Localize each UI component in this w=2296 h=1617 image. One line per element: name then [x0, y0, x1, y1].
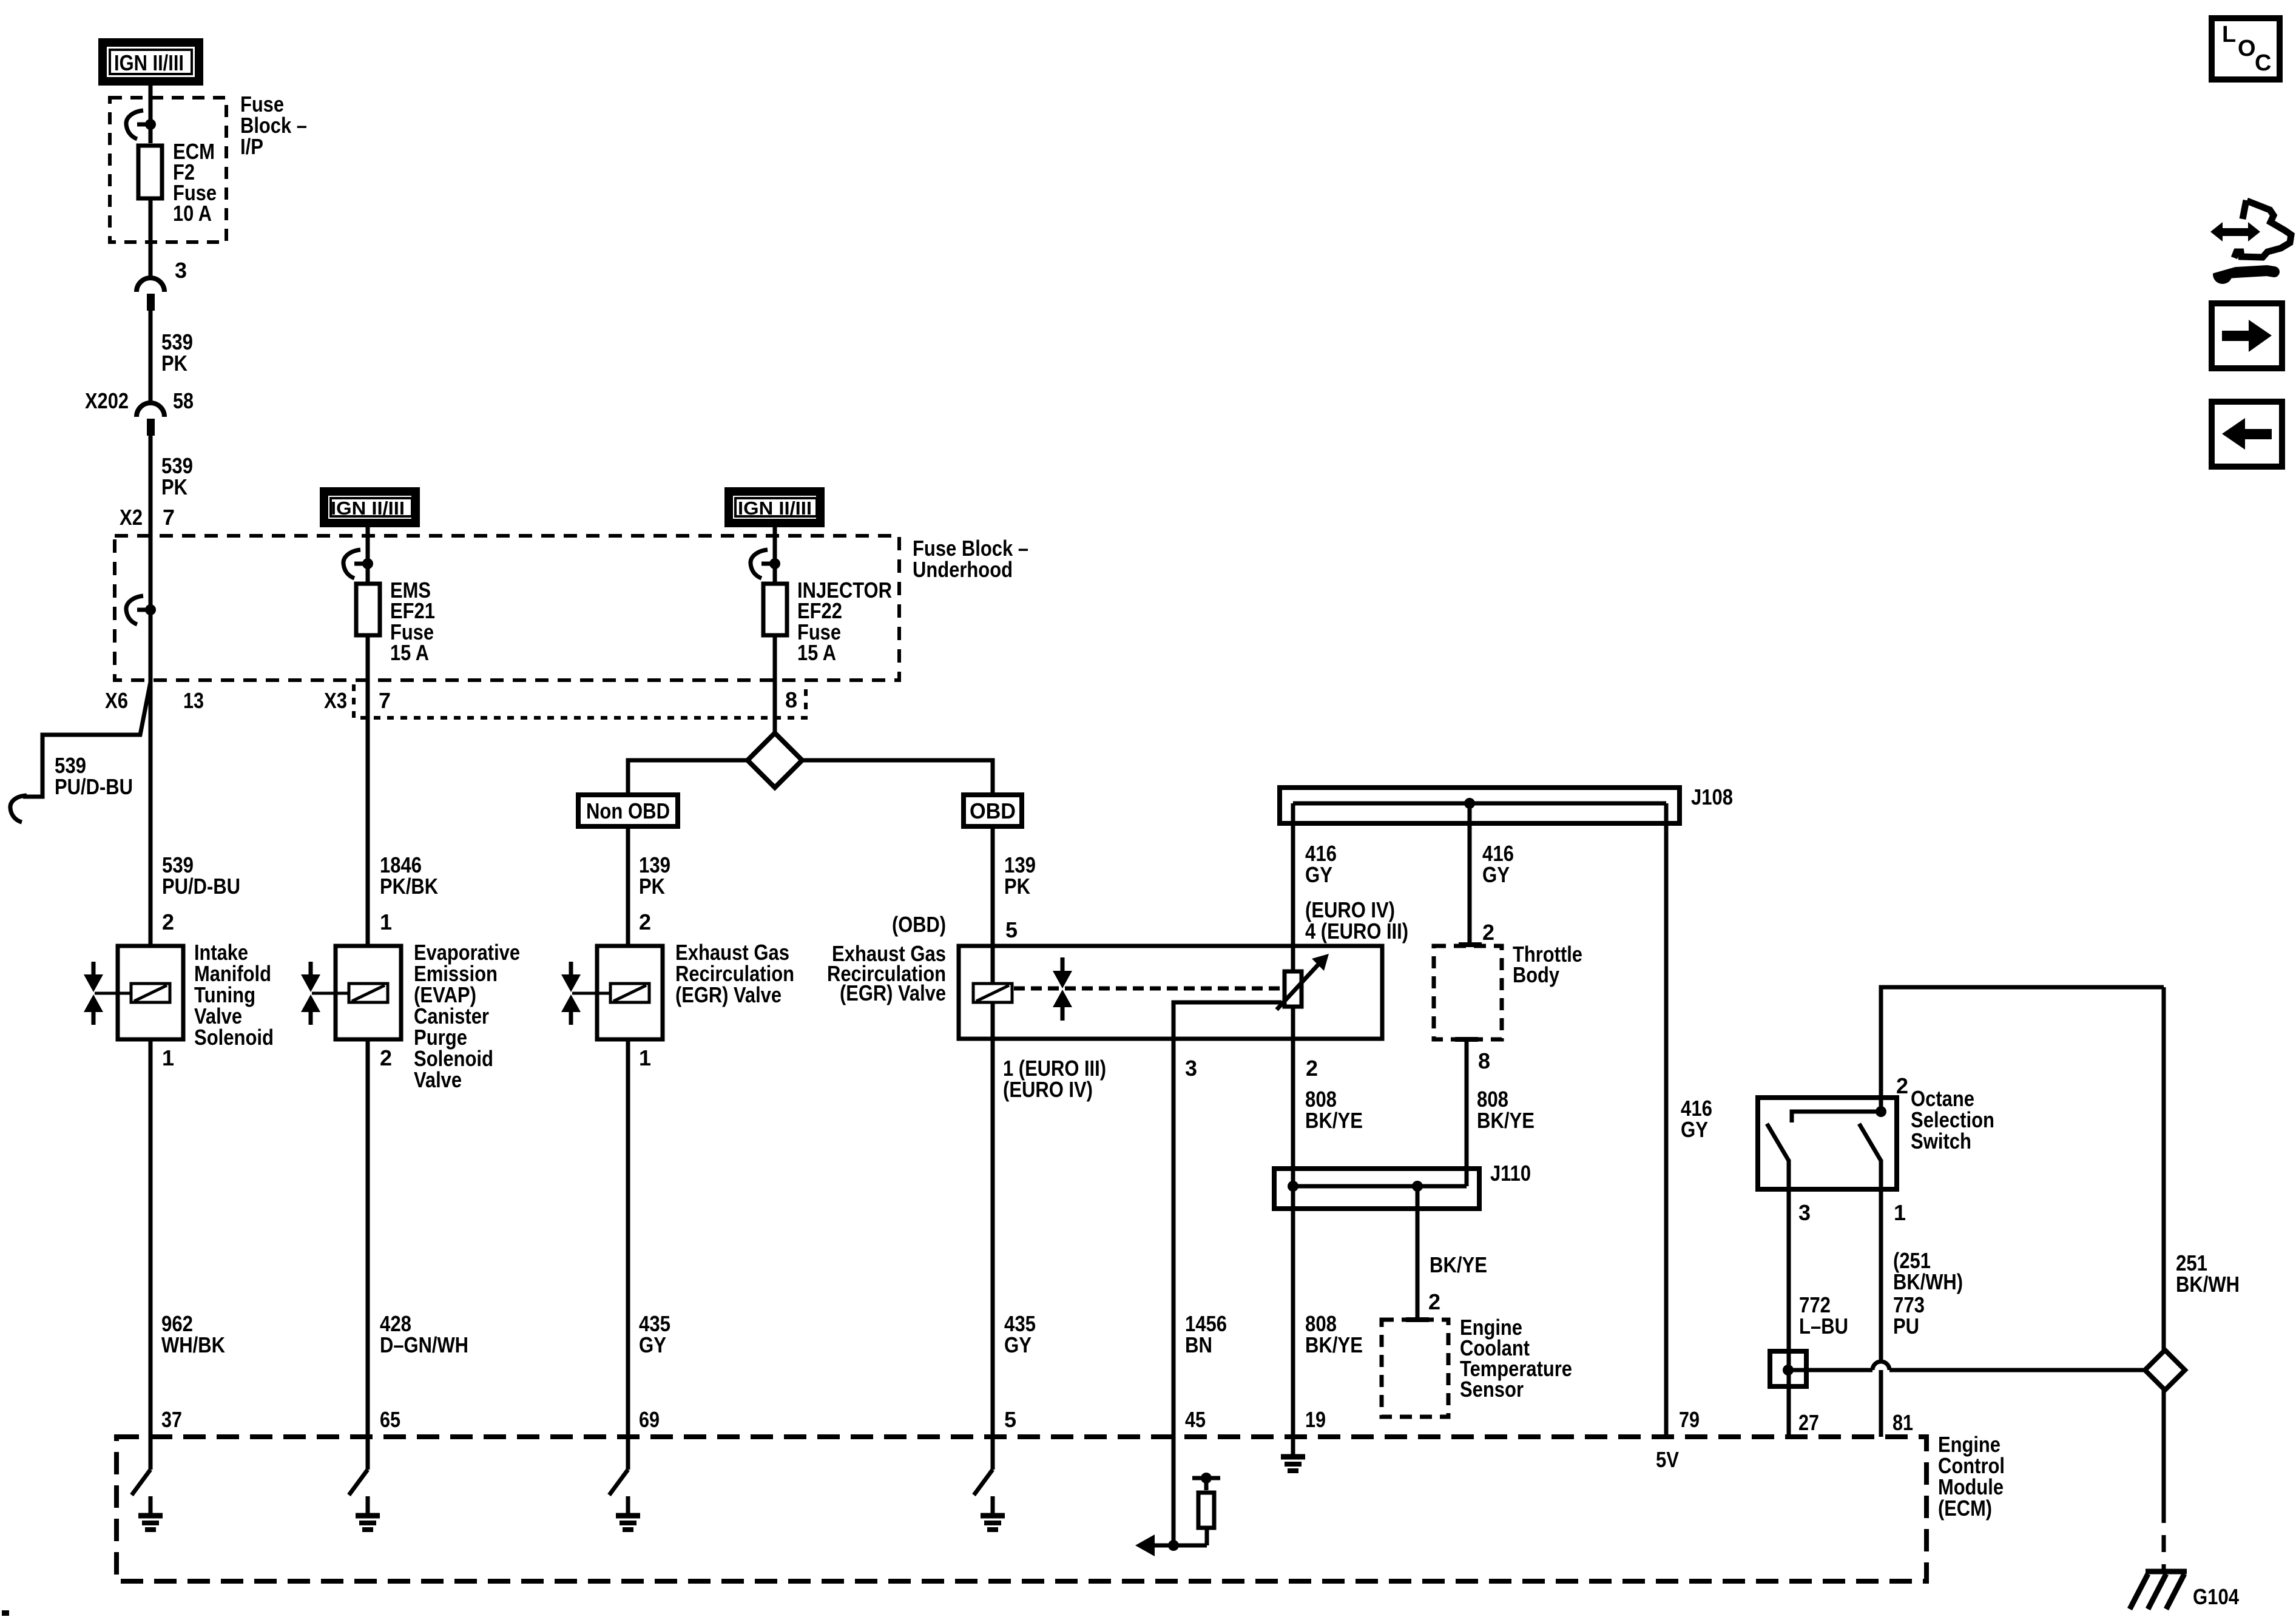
in-line connector X202 pin 3 (arc): [137, 278, 164, 292]
svg-text:81: 81: [1893, 1410, 1913, 1435]
back arrow icon: [2212, 402, 2282, 467]
wire EMS fuse down to X3 pin 7: [366, 635, 370, 720]
wire fuse F2 to connector pin 3: [149, 198, 153, 279]
svg-text:L–BU: L–BU: [1799, 1314, 1848, 1338]
svg-text:7: 7: [163, 505, 175, 530]
svg-text:BK/WH: BK/WH: [2176, 1272, 2240, 1297]
svg-text:(ECM): (ECM): [1938, 1496, 1992, 1521]
svg-text:1: 1: [162, 1045, 174, 1070]
wire 251 from octane switch pin 2: [1881, 987, 2164, 1112]
svg-text:BK/YE: BK/YE: [1305, 1108, 1363, 1133]
svg-text:1: 1: [1894, 1200, 1906, 1225]
svg-text:Sensor: Sensor: [1460, 1377, 1524, 1402]
svg-text:2: 2: [1428, 1289, 1440, 1314]
power label IGN II/III (INJECTOR fuse): [729, 491, 820, 523]
svg-text:X3: X3: [324, 688, 347, 713]
splice pack J110: [1274, 1169, 1479, 1209]
engine coolant temperature sensor dashed outline: [1382, 1320, 1448, 1417]
svg-text:1: 1: [380, 910, 392, 934]
wire 435 GY (OBD) to ECM pin 5: [991, 1039, 995, 1437]
svg-text:PK/BK: PK/BK: [380, 874, 438, 899]
svg-text:O: O: [2238, 36, 2256, 61]
svg-text:Underhood: Underhood: [913, 557, 1013, 582]
svg-text:5: 5: [1005, 917, 1018, 942]
svg-text:OBD: OBD: [970, 798, 1016, 823]
svg-text:PK: PK: [639, 874, 665, 899]
resistor inside ECM: [1192, 1473, 1220, 1528]
wire 539 PU/D-BU to IMT valve: [149, 682, 153, 946]
svg-text:2: 2: [1306, 1056, 1318, 1081]
svg-text:J110: J110: [1490, 1161, 1531, 1186]
fuse EMS EF21 15A: [356, 584, 380, 635]
svg-text:79: 79: [1679, 1407, 1700, 1432]
svg-text:58: 58: [173, 388, 194, 413]
wire 539 PK segment 2: [149, 433, 153, 535]
solenoid: EGR Valve (non OBD): [561, 946, 663, 1039]
wire 1 through fuse block underhood: [149, 535, 153, 682]
svg-text:PK: PK: [161, 474, 187, 499]
svg-text:D–GN/WH: D–GN/WH: [380, 1332, 468, 1357]
svg-text:IGN II/III: IGN II/III: [114, 50, 184, 75]
wire branch 539 PU/D-BU to left edge: [23, 682, 150, 797]
service tool icon (arrow and wrench): [2210, 200, 2291, 284]
wire junction to diamond splice: [1783, 1362, 2145, 1376]
wire 416 GY J108 to EGR pin 4: [1291, 803, 1295, 971]
ground pin 5: [974, 1437, 1005, 1530]
svg-text:8: 8: [785, 687, 797, 712]
EGR valve (OBD) outline: [959, 946, 1382, 1039]
fuse clip hook EMS: [343, 550, 373, 578]
wire IGN to INJECTOR fuse: [773, 527, 777, 582]
svg-text:GY: GY: [639, 1332, 666, 1357]
svg-text:(EGR) Valve: (EGR) Valve: [840, 981, 946, 1005]
forward arrow icon: [2212, 303, 2282, 368]
svg-text:BK/YE: BK/YE: [1430, 1252, 1487, 1277]
svg-text:PU: PU: [1893, 1314, 1919, 1338]
svg-text:(EGR) Valve: (EGR) Valve: [675, 982, 782, 1007]
ground pin 19: [1281, 1437, 1305, 1471]
octane switch contacts: [1767, 1106, 1886, 1192]
EGR OBD valve bowtie: [1053, 957, 1072, 1021]
svg-text:GY: GY: [1004, 1332, 1032, 1357]
svg-text:27: 27: [1798, 1410, 1819, 1435]
svg-text:X202: X202: [85, 388, 129, 413]
splice diamond: [748, 733, 802, 788]
power label IGN II/III (fuse block I/P): [103, 42, 199, 81]
svg-text:1: 1: [639, 1045, 651, 1070]
svg-text:IGN II/III: IGN II/III: [738, 498, 812, 519]
svg-text:PU/D-BU: PU/D-BU: [162, 874, 240, 899]
svg-text:8: 8: [1478, 1048, 1490, 1073]
svg-text:J108: J108: [1691, 785, 1733, 809]
svg-text:Valve: Valve: [414, 1067, 462, 1092]
svg-text:2: 2: [380, 1045, 392, 1070]
wire 416 GY J108 right to ECM pin 79: [1664, 803, 1669, 1437]
svg-text:Switch: Switch: [1911, 1129, 1971, 1153]
wire diamond to G104: [2162, 1390, 2166, 1506]
EGR OBD internal dashed link: [1014, 987, 1281, 991]
svg-text:I/P: I/P: [240, 134, 263, 159]
svg-text:3: 3: [175, 258, 187, 283]
svg-text:GY: GY: [1305, 862, 1332, 887]
svg-text:L: L: [2222, 22, 2236, 47]
wire OBD down to EGR valve (OBD): [991, 829, 995, 947]
svg-text:5: 5: [1004, 1407, 1016, 1432]
svg-text:15 A: 15 A: [797, 640, 836, 665]
svg-text:19: 19: [1305, 1407, 1326, 1432]
wire IGN to EMS fuse: [366, 527, 370, 582]
ground pin 37: [132, 1437, 163, 1530]
fuse INJECTOR EF22 15A: [763, 584, 787, 635]
svg-text:X6: X6: [105, 688, 128, 713]
power label IGN II/III (EMS fuse): [324, 491, 416, 523]
svg-text:PK: PK: [1004, 874, 1030, 899]
off-page hook: [10, 795, 27, 822]
fuse block underhood dashed outline: [115, 536, 899, 680]
svg-text:4 (EURO III): 4 (EURO III): [1305, 919, 1408, 944]
wire 808 BK/YE J110 to ECM pin 19: [1291, 1211, 1295, 1437]
svg-text:37: 37: [161, 1407, 182, 1432]
svg-text:45: 45: [1185, 1407, 1206, 1432]
engine control module dashed outline: [116, 1437, 1926, 1581]
Non OBD tag box: [578, 795, 678, 826]
wire 962 WH/BK to ECM pin 37: [149, 1039, 153, 1437]
svg-text:PU/D-BU: PU/D-BU: [55, 774, 133, 799]
splice pack J108: [1280, 788, 1680, 823]
svg-text:3: 3: [1798, 1200, 1811, 1225]
wire Non OBD down to EGR valve: [626, 829, 630, 946]
fuse block I/P dashed outline: [110, 98, 226, 242]
svg-text:15 A: 15 A: [390, 640, 429, 665]
svg-text:2: 2: [162, 910, 174, 934]
svg-text:Non OBD: Non OBD: [586, 798, 670, 823]
solenoid: Intake Manifold Tuning Valve Solenoid: [84, 946, 183, 1039]
svg-text:2: 2: [1482, 920, 1494, 945]
svg-text:BK/YE: BK/YE: [1305, 1332, 1363, 1357]
page artifact dot: [2, 1610, 9, 1616]
svg-text:GY: GY: [1482, 862, 1510, 887]
OBD tag box: [964, 795, 1022, 826]
octane selection switch box: [1758, 1098, 1897, 1189]
svg-text:PK: PK: [161, 351, 187, 376]
wire pin5 through coil: [991, 947, 995, 984]
wire 416 GY J108 to throttle body pin 2: [1468, 803, 1472, 945]
svg-text:X2: X2: [120, 505, 143, 530]
svg-text:WH/BK: WH/BK: [161, 1332, 225, 1357]
ground pin 65: [349, 1437, 380, 1530]
svg-text:3: 3: [1185, 1056, 1197, 1081]
svg-text:2: 2: [639, 910, 651, 934]
svg-text:(EURO IV): (EURO IV): [1003, 1077, 1093, 1102]
EGR OBD coil: [973, 984, 1012, 1002]
svg-text:13: 13: [183, 688, 204, 713]
svg-text:69: 69: [639, 1407, 660, 1432]
fuse clip hook at fuse block I/P: [126, 110, 156, 139]
wire 1846 PK/BK to EVAP valve: [366, 720, 370, 946]
wire diamond to Non OBD: [628, 760, 748, 794]
svg-text:C: C: [2255, 50, 2271, 76]
EGR pintle position sensor (potentiometer): [1173, 954, 1329, 1039]
svg-text:7: 7: [379, 688, 391, 713]
connector X3 dotted outline: [354, 684, 806, 718]
solenoid: EVAP Canister Purge Solenoid Valve: [301, 946, 401, 1039]
splice diamond 2: [2145, 1350, 2185, 1390]
wire 539 PK segment: [149, 308, 153, 403]
ground pin 69: [609, 1437, 640, 1530]
svg-text:BK/WH): BK/WH): [1893, 1269, 1963, 1294]
wire 808 BK/YE throttle body to J110: [1465, 1039, 1469, 1186]
junction box on wire 772: [1770, 1351, 1806, 1386]
svg-text:65: 65: [380, 1407, 400, 1432]
svg-text:BN: BN: [1185, 1332, 1212, 1357]
throttle body pin ticks: [1459, 942, 1482, 947]
wire 251 BK/WH right side down: [2162, 987, 2166, 1351]
throttle body dashed outline: [1434, 946, 1502, 1039]
wire 1456 BN to ECM pin 45: [1172, 1039, 1176, 1437]
wire from IGN II/III to fuse ECM F2: [149, 86, 153, 143]
svg-text:10 A: 10 A: [173, 201, 212, 226]
svg-text:Solenoid: Solenoid: [194, 1025, 274, 1050]
fuse clip hook on wire 1: [126, 596, 156, 624]
svg-text:(OBD): (OBD): [892, 912, 946, 937]
svg-text:IGN II/III: IGN II/III: [331, 498, 405, 519]
chassis ground G104: [2130, 1571, 2187, 1609]
wire pin 45 internal with resistor and arrow: [1135, 1437, 1207, 1556]
svg-text:5V: 5V: [1656, 1447, 1679, 1472]
wire INJECTOR fuse to splice diamond: [773, 635, 777, 734]
fuse clip hook INJECTOR: [751, 550, 780, 578]
wire 808 BK/YE EGR pin 2 to J110: [1291, 1007, 1295, 1039]
wire 773 PU pin 1 to ECM pin 81: [1879, 1192, 1883, 1437]
wire 772 L-BU pin 3 to ECM pin 27: [1787, 1192, 1791, 1437]
svg-text:2: 2: [1896, 1073, 1908, 1098]
wire BK/YE J110 to ECT sensor: [1416, 1186, 1420, 1320]
wire 435 GY to ECM pin 69: [626, 1039, 630, 1437]
wire diamond to OBD: [802, 760, 993, 794]
wire 428 D-GN/WH to ECM pin 65: [366, 1039, 370, 1437]
fuse F2 ECM 10A: [138, 146, 162, 198]
svg-text:GY: GY: [1681, 1117, 1708, 1142]
svg-text:BK/YE: BK/YE: [1477, 1108, 1535, 1133]
svg-text:Body: Body: [1513, 962, 1559, 987]
LOC icon: [2212, 18, 2280, 79]
svg-text:G104: G104: [2193, 1584, 2239, 1609]
